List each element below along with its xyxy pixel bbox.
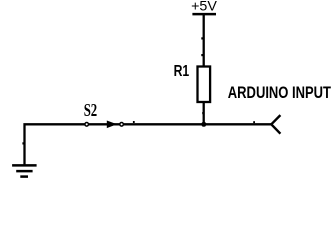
open wire end chevron lower prong [271,124,280,133]
wire joint nub [22,142,24,144]
power supply +5V rail symbol (T bar) [192,13,216,16]
ground symbol bar 3 [20,175,28,178]
wire from +5V rail to resistor R1 top [203,14,205,67]
wire from resistor R1 bottom to junction [203,102,205,124]
wire joint nub [253,121,255,123]
wire joint nub [202,112,204,114]
main horizontal wire with left corner down to ground [25,124,272,165]
wire joint nub [201,37,203,39]
switch S2 actuator triangle [107,121,117,129]
svg-text:ARDUINO INPUT: ARDUINO INPUT [228,84,331,102]
ground symbol bar 2 [16,170,32,173]
svg-text:S2: S2 [84,100,98,120]
wire joint nub [133,121,135,123]
switch S2 terminal circle left [85,123,89,127]
switch S2 terminal circle right [120,123,124,127]
svg-text:R1: R1 [174,63,190,80]
resistor R1 body [198,67,211,103]
wire joint nub [201,54,203,56]
ground symbol bar 1 [12,164,36,167]
junction dot at resistor/wire node [201,122,206,127]
open wire end chevron upper prong [271,115,280,124]
svg-text:+5V: +5V [191,0,217,14]
